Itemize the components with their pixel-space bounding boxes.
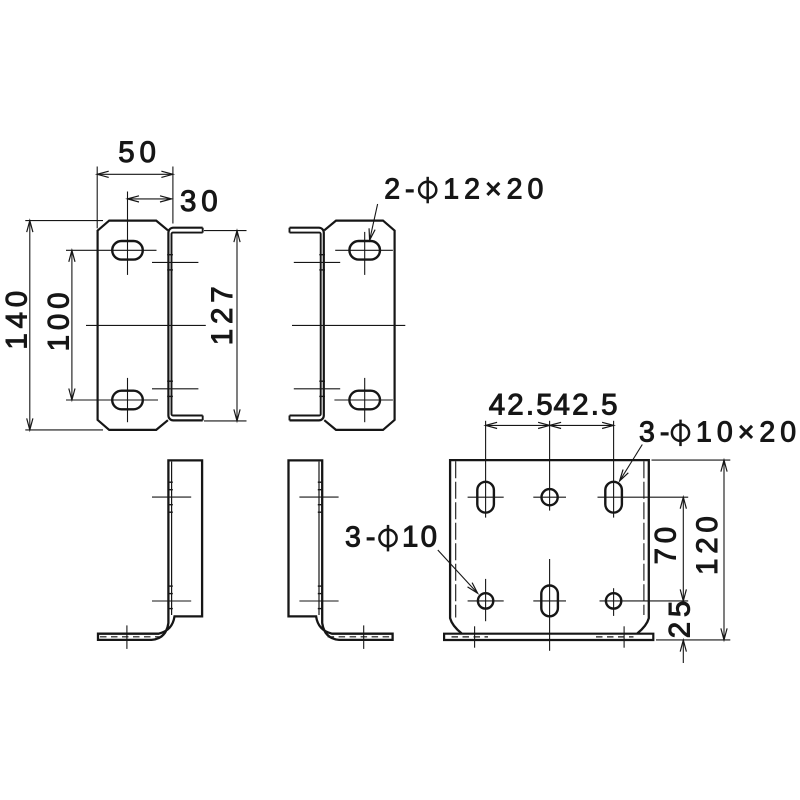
svg-text:70: 70 <box>650 522 683 564</box>
svg-text:25: 25 <box>664 596 697 638</box>
view E top-right slot <box>605 482 622 513</box>
svg-text:3-: 3- <box>639 416 674 448</box>
view D foot hidden line <box>328 636 391 638</box>
svg-text:2-: 2- <box>384 174 419 206</box>
view E bend lines <box>455 461 457 617</box>
svg-text:3-: 3- <box>345 522 380 554</box>
view E bottom foot edge-on <box>444 634 653 640</box>
dimension 140 <box>25 220 103 222</box>
view B plate outline <box>324 221 394 430</box>
view A bottom slot <box>112 391 143 410</box>
dimension 127 <box>204 230 247 232</box>
view B top slot <box>349 241 380 260</box>
view B flange slot edge ticks <box>319 254 325 256</box>
view B bottom slot <box>349 391 380 410</box>
view E bottom-left hole <box>478 593 493 608</box>
dimension 42.5 left <box>486 424 550 426</box>
dimension 42.5 right <box>550 424 614 426</box>
dimension 25 <box>682 640 684 663</box>
svg-text:42.5: 42.5 <box>553 388 619 421</box>
view E bottom-right hole <box>606 593 621 608</box>
dimension 50 <box>96 167 98 229</box>
view E centerlines <box>485 421 487 518</box>
view C bend line <box>171 462 173 615</box>
svg-text:42.5: 42.5 <box>489 388 555 421</box>
view A plate outline <box>98 221 168 430</box>
view E top-left slot <box>477 482 494 513</box>
view A centerlines <box>66 249 157 251</box>
dimension 30 <box>128 198 172 200</box>
view A top slot <box>112 241 143 260</box>
view E top-middle hole <box>542 489 558 505</box>
svg-text:12×20: 12×20 <box>443 174 548 206</box>
view E foot hidden lines <box>452 636 489 638</box>
view D bend line <box>318 462 320 615</box>
view C L-profile outline <box>98 460 202 640</box>
svg-text:100: 100 <box>42 288 75 352</box>
dimension 70 <box>682 497 684 601</box>
view D centerlines <box>299 496 338 498</box>
dimension 100 <box>71 250 73 400</box>
dimension 120 <box>652 459 731 461</box>
view B bent flange edge <box>290 228 324 421</box>
view E bottom-middle slot <box>541 586 558 617</box>
view A bent flange edge (strip with top/bottom lips) <box>168 228 202 421</box>
view D hole edge ticks <box>318 481 323 483</box>
svg-text:10: 10 <box>402 521 439 554</box>
view A flange slot edge ticks <box>167 254 173 256</box>
view B centerlines <box>335 249 393 251</box>
view E plate outline <box>450 460 649 633</box>
svg-text:50: 50 <box>118 136 160 169</box>
svg-text:10×20: 10×20 <box>696 416 800 448</box>
view D L-profile outline <box>289 460 393 640</box>
view C centerlines <box>152 496 191 498</box>
svg-text:120: 120 <box>691 511 724 575</box>
svg-text:30: 30 <box>180 185 222 218</box>
svg-text:140: 140 <box>1 286 34 350</box>
svg-text:127: 127 <box>206 282 239 346</box>
view C hole edge ticks <box>168 481 173 483</box>
view C foot hidden line <box>100 636 163 638</box>
